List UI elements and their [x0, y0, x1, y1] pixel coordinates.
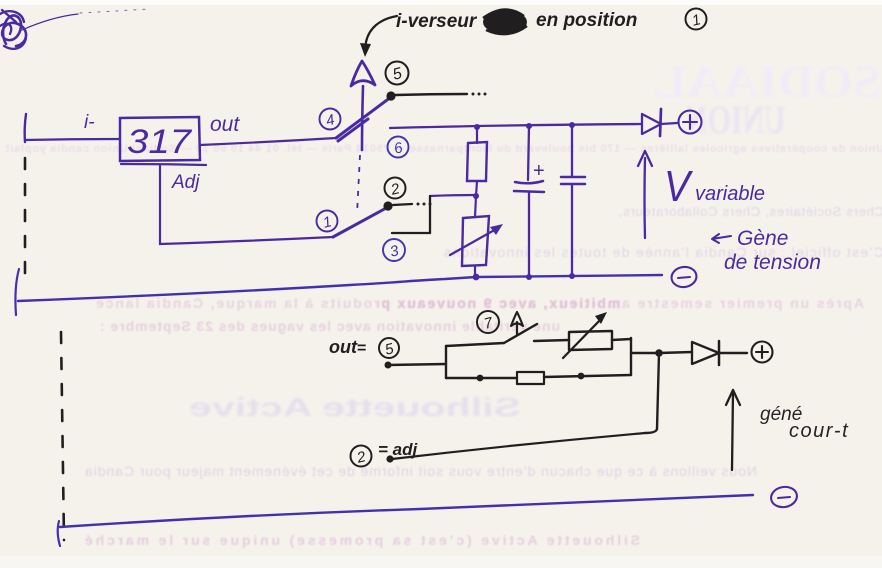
node junction P1/rail — [473, 274, 480, 281]
node junction C1/top rail — [526, 123, 532, 129]
wire: adj wire to terminal 2 — [392, 433, 645, 459]
wire: bottom branch right — [544, 375, 631, 377]
regulator U1 317 box — [120, 117, 206, 165]
diode D1 — [642, 109, 677, 136]
label pin 3 — [383, 239, 405, 261]
label 2 = adj — [351, 446, 372, 467]
svg-text:out: out — [210, 113, 240, 136]
arrow gene courant — [726, 390, 740, 470]
node junction C2/top rail — [569, 122, 575, 128]
arrow V variable — [638, 151, 652, 238]
label pin 4 — [320, 109, 341, 130]
wire: Adj pin down and right to switch S1b pole — [160, 166, 333, 244]
svg-text:out: out — [329, 337, 358, 357]
switch actuator arrow (inverter knob) — [362, 86, 363, 150]
dashed margin line (lower, black) — [61, 332, 64, 540]
switch S1b arm (pole 1 to throw 2) — [333, 207, 388, 237]
wire: top branch middle — [534, 340, 569, 341]
terminal + (current output) — [752, 342, 773, 363]
node: out terminal dot — [385, 362, 392, 369]
node: S1a throw contact — [386, 91, 395, 100]
node: S1b throw contact — [383, 201, 392, 210]
node: adj terminal dot — [386, 455, 393, 462]
node junction C2/rail — [569, 273, 575, 279]
svg-text:de tension: de tension — [724, 251, 821, 274]
svg-text:+: + — [533, 160, 545, 182]
wire: out to network — [388, 364, 446, 365]
terminal + (voltage output) — [679, 111, 702, 134]
label Gene de tension — [712, 234, 731, 243]
label pin 5 — [386, 62, 409, 85]
node junction R1/top rail — [474, 124, 480, 130]
capacitor C2 — [561, 125, 585, 277]
terminal - (current output) — [769, 485, 798, 509]
wire: bottom negative rail (long line) — [58, 521, 60, 546]
svg-text:317: 317 — [127, 123, 192, 161]
wire: top branch left — [446, 343, 504, 346]
terminal - (voltage output) — [670, 265, 698, 288]
svg-text:i‑: i‑ — [84, 112, 95, 133]
annotation arrow to actuator — [365, 16, 397, 49]
resistor R1 — [467, 127, 487, 196]
label pin 6 — [388, 137, 409, 158]
svg-text:V: V — [664, 162, 693, 211]
pen scribble (top-left) — [0, 9, 150, 49]
svg-text:Nous veillons à ce que chacun: Nous veillons à ce que chacun d’entre vo… — [85, 463, 757, 479]
svg-text:=: = — [357, 340, 366, 357]
node: bottom branch right dot — [578, 373, 585, 380]
wire: negative rail (long line) — [15, 269, 19, 315]
wire: input to regulator — [25, 139, 119, 140]
svg-text:variable: variable — [695, 183, 765, 205]
switch S2 actuator arrow — [516, 322, 518, 334]
diode D2 — [692, 341, 747, 365]
svg-text:i‑verseur: i‑verseur — [396, 11, 478, 32]
dashed margin line (upper, black) — [24, 158, 27, 284]
node junction C1/rail — [526, 274, 532, 280]
svg-text:= adj: = adj — [378, 440, 418, 459]
potentiometer P2 — [569, 331, 612, 350]
wire: junction down to adj — [645, 353, 659, 433]
svg-text:Gène: Gène — [737, 227, 788, 250]
wire: top branch right — [612, 339, 631, 340]
wire: position-3 stub (black) — [392, 232, 430, 234]
wire: position-5 stub (black, dotted end) — [395, 94, 467, 95]
wire: bottom branch left — [446, 377, 517, 379]
switch S2 arm — [504, 324, 537, 343]
node: input terminal tick — [25, 114, 26, 142]
capacitor C1 (electrolytic +) — [514, 126, 544, 278]
wire: top rail from contact 6 to diode — [390, 124, 642, 128]
svg-text:Silhouette Active: Silhouette Active — [189, 392, 521, 422]
wire: position-2 dotted stub + step (black) — [393, 204, 412, 205]
svg-text:cour‑t: cour‑t — [789, 420, 849, 442]
svg-text:en position: en position — [536, 10, 637, 31]
svg-text:Adj: Adj — [171, 172, 200, 193]
wire: network to diode junction — [631, 352, 659, 354]
switch S1a arm (pole 4 to throw 5) — [336, 97, 391, 141]
wire: switch S1b pos2 link to R1/P1 junction — [430, 195, 476, 196]
label pin 2 — [385, 178, 406, 199]
wire: right bracket — [630, 338, 632, 375]
node: bottom branch left dot — [477, 375, 484, 382]
label pin 1 — [317, 211, 338, 232]
resistor R2 — [517, 372, 544, 384]
potentiometer P1 (variable resistor) — [450, 196, 498, 278]
mechanical coupling (dashed) to S1b — [357, 155, 360, 214]
wire: out pin to switch S1a pole — [200, 138, 336, 145]
svg-text:Chers Sociétaires, Chers Colla: Chers Sociétaires, Chers Collaborateurs, — [619, 204, 882, 219]
wire: left bracket of parallel network — [445, 346, 447, 378]
node: junction before diode — [655, 349, 663, 357]
label switch 7 — [477, 311, 499, 333]
node junction below R1 — [473, 193, 479, 199]
